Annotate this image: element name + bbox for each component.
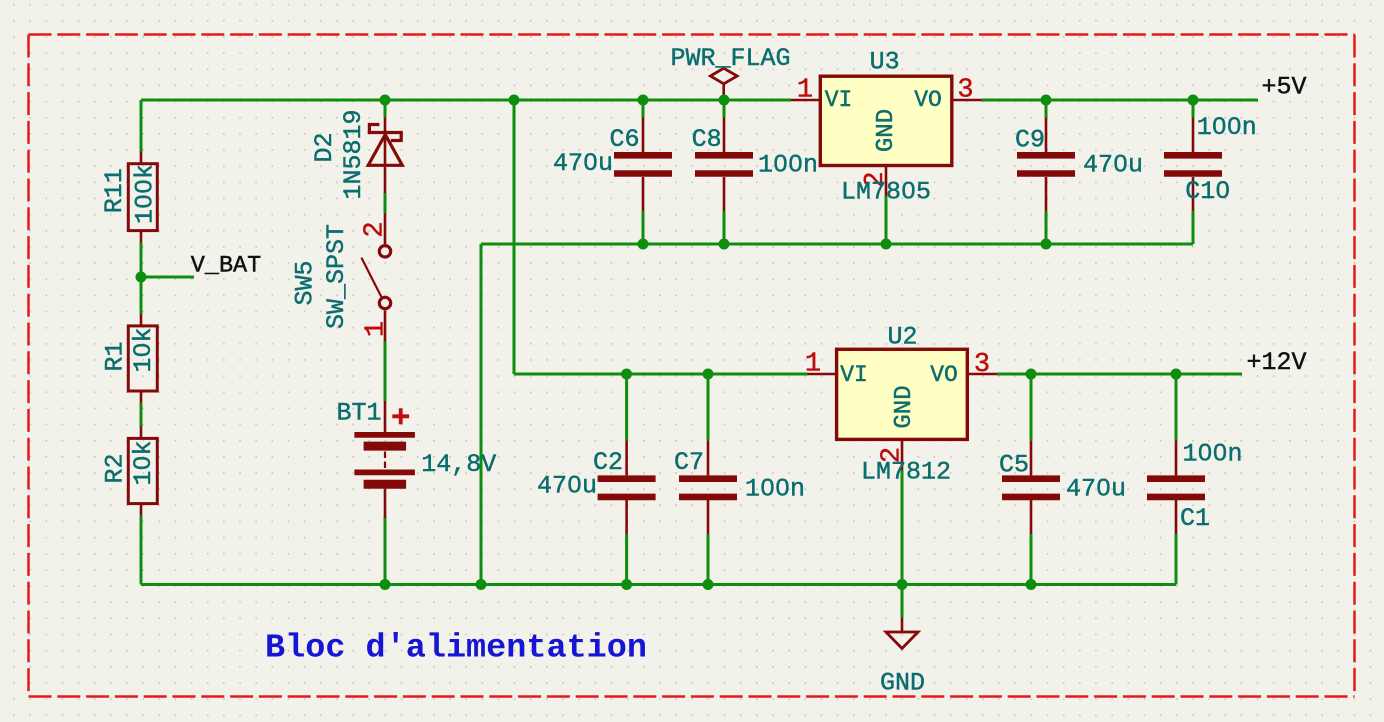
wire GND symbol drop [901,585,904,618]
svg-text:LM7812: LM7812 [861,458,951,487]
svg-text:1: 1 [361,321,391,337]
wire C1 bottom lead [1175,534,1178,585]
junction bottom rail x=708 [703,579,714,590]
wire mid-left vertical [480,244,483,585]
R11 reference label [100,168,129,213]
svg-text:3: 3 [957,75,973,105]
junction top rail x=643 [638,95,649,106]
R2 reference label [100,453,129,483]
U2 pin name GND [891,385,918,428]
svg-text:PWR_FLAG: PWR_FLAG [670,44,790,73]
wire cap top lead [1045,100,1048,118]
junction ground return rail x=886 [881,239,892,250]
junction bottom rail x=1031 [1026,579,1037,590]
wire ground return rail [481,243,1193,246]
junction bottom rail x=385 [380,579,391,590]
wire +5V output rail [982,99,1259,102]
D2 internal lead [384,132,387,165]
capacitor C9 [1017,155,1075,173]
capacitor bottom pin lead [723,177,726,211]
wire R11 to R1 [140,243,143,314]
capacitor C8 [695,155,753,173]
capacitor bottom pin lead [642,177,645,211]
D2 value label [339,109,368,199]
svg-text:100n: 100n [758,150,818,179]
wire top rail to D2 [384,100,387,118]
power flag PWR_FLAG [710,68,737,84]
U2 pin 3 lead [967,373,997,376]
svg-text:SW_SPST: SW_SPST [322,224,351,329]
SW5 pin 2 number [360,221,390,237]
svg-text:C2: C2 [593,448,623,477]
D2 reference label [310,132,339,162]
junction top rail x=1193 [1188,95,1199,106]
svg-text:2: 2 [360,221,390,237]
SW5 value label [322,224,351,329]
junction ground return rail x=643 [638,239,649,250]
svg-text:+5V: +5V [1261,73,1306,102]
svg-text:1: 1 [805,349,821,379]
wire V_BAT stub [141,276,194,279]
U3 pin 2 number [861,171,891,187]
svg-text:100n: 100n [745,475,805,504]
ground symbol pin lead [901,618,904,633]
capacitor top pin lead [723,118,726,153]
U3 pin 3 lead [952,99,982,102]
wire cap bottom lead [1045,211,1048,244]
R1 reference label [100,341,129,371]
svg-text:LM7805: LM7805 [841,178,931,207]
capacitor top pin lead [642,118,645,153]
svg-text:3: 3 [974,350,990,380]
capacitor top pin lead [1192,118,1195,153]
diode D2 (Schottky 1N5819) [368,125,403,166]
wire left riser above R11 [140,100,143,152]
R11 pin 2 lead [140,231,143,243]
wire input riser x514 [513,100,516,374]
wire cap top lead [1030,374,1033,440]
battery BT1 [354,435,415,484]
junction 12V rail x=626.6 [621,369,632,380]
svg-text:C8: C8 [692,125,722,154]
svg-text:GND: GND [880,669,925,698]
svg-text:VO: VO [914,87,942,113]
junction top rail x=1046 [1041,95,1052,106]
junction ground return rail x=724 [719,239,730,250]
R1 value label [129,327,158,372]
wire cap top lead [642,100,645,118]
svg-text:VO: VO [930,362,958,388]
wire D2 to SW5 [384,193,387,213]
capacitor bottom pin lead [707,500,710,534]
wire 12V input rail [514,373,808,376]
wire cap bottom lead [707,534,710,585]
wire C10 bottom riser [1192,211,1195,244]
wire +12V output rail [997,373,1242,376]
U2 pin 2 number [877,447,907,463]
wire bottom ground rail [141,583,1176,586]
R2 pin 2 lead [140,504,143,516]
junction top rail x=385 [380,95,391,106]
wire C10 top lead [1192,100,1195,118]
R11 pin 1 lead [140,152,143,164]
svg-text:VI: VI [840,362,868,388]
capacitor top pin lead [625,440,628,475]
svg-text:100n: 100n [1182,440,1242,469]
switch SW5 (SPST) [361,246,390,309]
wire top rail [141,99,791,102]
wire cap bottom lead [642,211,645,244]
BT1 plus sign [392,408,409,424]
svg-text:C6: C6 [609,125,639,154]
wire SW5 to BT1 [384,341,387,401]
svg-text:BT1: BT1 [336,398,381,427]
svg-text:C5: C5 [999,451,1029,480]
svg-text:C9: C9 [1015,126,1045,155]
svg-text:U2: U2 [887,323,917,352]
junction V_BAT node [136,272,147,283]
BT1 positive pin lead [384,401,387,432]
wire cap bottom lead [723,211,726,244]
svg-text:470u: 470u [1066,475,1126,504]
junction top rail x=724 [719,95,730,106]
SW5 pin 1 lead [384,310,387,341]
resistor R11 [128,164,157,231]
svg-text:U3: U3 [870,48,900,77]
junction 12V rail x=1176 [1171,369,1182,380]
R2 value label [129,440,158,485]
U2 pin 2 lead [901,439,904,470]
svg-text:VI: VI [825,87,853,113]
R1 pin 1 lead [140,314,143,326]
svg-text:SW5: SW5 [291,260,320,305]
BT1 negative pin lead [384,489,387,518]
U2 pin 1 lead [808,373,837,376]
R2 pin 1 lead [140,426,143,438]
resistor R1 [128,326,157,391]
wire C1 top lead [1175,374,1178,440]
wire BT1 to bottom rail [384,517,387,585]
junction 12V rail x=1031 [1026,369,1037,380]
svg-text:Bloc d'alimentation: Bloc d'alimentation [265,630,647,668]
junction bottom rail x=481 [476,579,487,590]
capacitor C1 [1147,479,1205,497]
wire R1 to R2 [140,403,143,426]
wire R2 to bottom rail [140,516,143,585]
junction ground return rail x=1046 [1041,239,1052,250]
svg-text:470u: 470u [553,149,613,178]
R1 pin 2 lead [140,391,143,403]
SW5 pin 1 number [361,321,391,337]
capacitor C10 [1164,155,1222,173]
capacitor bottom pin lead [1175,500,1178,534]
svg-text:1N5819: 1N5819 [339,109,368,199]
svg-text:+12V: +12V [1246,348,1306,377]
capacitor bottom pin lead [625,500,628,534]
svg-text:R2: R2 [100,453,129,483]
junction top rail x=514 [509,95,520,106]
junction 12V rail x=708 [703,369,714,380]
D2 anode pin lead [384,165,387,193]
capacitor top pin lead [1045,118,1048,153]
svg-text:R1: R1 [100,341,129,371]
junction bottom rail x=902 [897,579,908,590]
wire cap top lead [707,374,710,440]
capacitor C6 [614,155,672,173]
wire cap bottom lead [625,534,628,585]
svg-text:D2: D2 [310,132,339,162]
wire cap top lead [723,100,726,118]
resistor R2 [128,438,157,503]
svg-text:R11: R11 [100,168,129,213]
svg-text:100k: 100k [130,164,159,224]
wire U2 GND to bottom rail [901,470,904,585]
capacitor C5 [1002,479,1060,497]
wire cap bottom lead [1030,534,1033,585]
capacitor top pin lead [707,440,710,475]
svg-text:14,8V: 14,8V [421,450,496,479]
svg-text:V_BAT: V_BAT [191,253,262,280]
capacitor top pin lead [1030,440,1033,475]
svg-text:GND: GND [873,109,900,152]
capacitor C2 [598,479,656,497]
capacitor bottom pin lead [1045,177,1048,211]
wire cap top lead [625,374,628,440]
op-amp U2 regulator body [837,349,968,439]
PWR_FLAG pin lead [722,84,725,100]
svg-text:1: 1 [797,75,813,105]
U3 pin name GND [873,109,900,152]
svg-text:470u: 470u [537,472,597,501]
SW5 pin 2 lead [384,213,387,244]
capacitor top pin lead [1175,440,1178,475]
U3 pin 2 lead [885,166,888,197]
svg-text:C1: C1 [1180,504,1210,533]
capacitor bottom pin lead [1030,500,1033,534]
ground symbol [886,632,918,649]
junction bottom rail x=626.6 [621,579,632,590]
SW5 reference label [291,260,320,305]
capacitor bottom pin lead [1192,177,1195,211]
op-amp U3 regulator body [820,76,952,165]
capacitor C7 [679,479,737,497]
R11 value label [130,164,159,224]
wire U3 GND to rail [885,196,888,244]
D2 cathode pin lead [384,118,387,133]
svg-text:GND: GND [891,385,918,428]
U3 pin 1 lead [791,99,820,102]
svg-text:C7: C7 [674,448,704,477]
svg-text:470u: 470u [1083,150,1143,179]
svg-text:100n: 100n [1197,113,1257,142]
